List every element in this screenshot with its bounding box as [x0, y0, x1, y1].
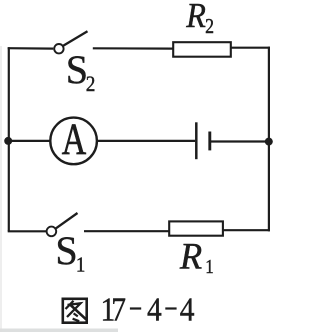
node junction dot left	[4, 137, 12, 145]
wire left node to ammeter	[8, 140, 51, 142]
wire bottom-left horizontal	[8, 230, 46, 232]
caption figure character 图 (drawn)	[63, 299, 87, 323]
svg-text:S: S	[55, 228, 77, 273]
svg-text:R: R	[179, 236, 202, 277]
node junction dot right	[265, 138, 273, 146]
wire S2 to R2	[93, 47, 173, 49]
wire battery to right node	[210, 140, 269, 142]
label R2	[185, 0, 214, 38]
svg-text:S: S	[66, 47, 88, 92]
wire R1 to right corner	[223, 229, 270, 231]
label S2	[66, 47, 96, 96]
switch S2 pivot circle	[54, 44, 63, 53]
svg-text:4: 4	[147, 290, 162, 328]
resistor R1 body	[169, 221, 223, 235]
svg-text:2: 2	[86, 73, 96, 96]
wire right vertical	[268, 47, 270, 232]
ammeter U1 circle	[50, 118, 97, 165]
svg-text:A: A	[62, 115, 87, 163]
svg-text:2: 2	[205, 16, 214, 39]
svg-text:7: 7	[111, 290, 126, 328]
svg-text:1: 1	[76, 254, 85, 277]
wire ammeter to battery	[97, 140, 195, 142]
switch S2 lever	[63, 31, 87, 46]
switch S1 pivot circle	[47, 227, 57, 237]
svg-text:1: 1	[205, 256, 214, 279]
battery long plate	[195, 122, 198, 159]
label R1	[179, 236, 214, 279]
caption text 17-4-4	[101, 290, 195, 328]
svg-text:R: R	[185, 0, 206, 35]
scan streak left edge	[0, 46, 2, 332]
scan smudge bottom edge	[0, 329, 118, 332]
wire S1 to R1	[84, 230, 169, 232]
switch S1 lever	[56, 213, 78, 228]
battery short plate	[208, 132, 211, 151]
svg-text:4: 4	[180, 290, 195, 328]
wire top-left horizontal	[8, 47, 54, 50]
wire left vertical	[8, 47, 10, 231]
resistor R2 body	[173, 42, 231, 57]
wire R2 to right corner	[231, 47, 270, 49]
label S1	[55, 228, 85, 277]
